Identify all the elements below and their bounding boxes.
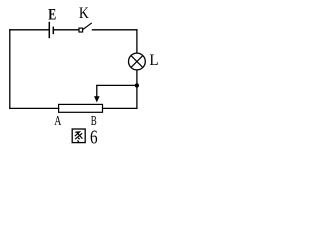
wire: switch to top right corner [92,29,136,31]
switch K: lever arm [83,23,91,29]
wire: top left horizontal to battery [10,29,49,31]
wire: slider stem vertical [96,85,98,96]
wire: right vertical down to lamp [136,30,138,54]
switch K: contact square [79,28,83,32]
wire: left vertical side [9,30,11,109]
lamp L: cross diagonal NW-SE [131,56,143,68]
slider arrowhead [94,96,100,102]
svg-text:L: L [149,52,158,69]
lamp L: cross diagonal NE-SW [131,56,143,68]
svg-text:E: E [48,6,56,24]
junction node (dot) [135,83,139,87]
svg-text:A: A [54,112,61,128]
rheostat body (slide resistor) [59,104,103,112]
caption character 图 : inner strokes (冬) [75,132,83,142]
lamp L: bulb circle [129,53,146,70]
wire: junction down right side [136,85,138,108]
wire: battery to switch [53,29,79,31]
battery E: short plate [52,27,54,35]
wire: bottom right horizontal to rheostat terminal B [103,107,137,109]
caption character 图 : outer box [72,129,85,143]
wire: rheostat left terminal A to left side [10,107,59,109]
svg-text:6: 6 [90,126,98,148]
wire: junction to slider horizontal [97,84,137,86]
wire: lamp bottom to junction [136,70,138,86]
svg-text:K: K [79,5,89,22]
battery E: long plate [48,22,50,38]
